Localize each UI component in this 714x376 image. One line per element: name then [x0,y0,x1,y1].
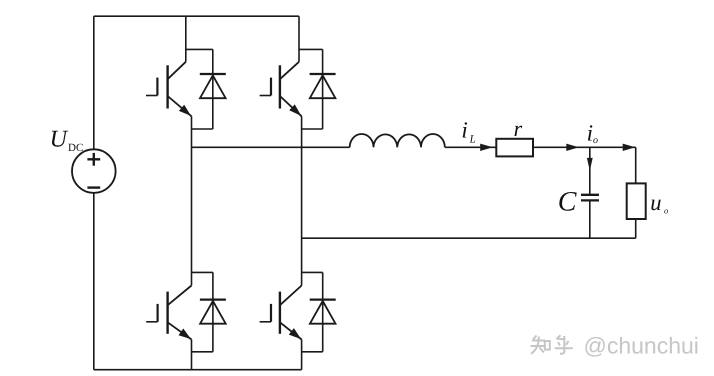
transistor Q2 (top collector wire) [298,16,300,62]
wire: emitter tee to D3 bottom [192,351,213,353]
arrow: current direction before node [566,144,579,151]
load resistor u_o box [627,183,646,219]
wire: right bridge leg (node B) [301,116,303,285]
wire: bottom output rail from node B to load [302,237,636,239]
svg-text:C: C [558,186,577,217]
svg-text:DC: DC [68,142,83,154]
DC source U_DC circle [72,149,116,193]
wire: bottom DC rail [94,369,302,371]
transistor Q4 body [260,286,302,340]
transistor Q2 body [260,62,302,117]
arrow: capacitor current down [587,158,593,171]
wire: left bridge leg (node A) [191,116,193,285]
DC source minus sign [87,186,100,188]
wire: phase rail from node A to inductor [192,146,350,148]
inductor L [350,134,445,147]
transistor Q1 body [146,62,192,117]
diode D4 antiparallel [310,272,336,351]
svg-text:L: L [469,133,476,145]
DC source plus sign [87,153,100,166]
wire: left vertical from top rail to source [93,16,95,149]
wire: inductor to resistor [445,146,497,148]
wire: Q2 emitter tee to D2 bottom [302,128,323,130]
transistor Q1 (top collector wire) [185,16,187,62]
wire: Q4 collector tee to D4 top [302,271,323,273]
resistor r [496,139,533,157]
wire: load branch lower [635,219,637,238]
svg-text:o: o [593,135,598,146]
diode D3 antiparallel [200,272,226,351]
wire: Q3 collector tee to D3 top [192,271,213,273]
wire: Q1 collector tee to D1 [186,48,213,50]
wire: Q3 emitter to bottom rail [191,340,193,370]
capacitor C plates [581,195,599,201]
wire: load branch upper [635,147,637,183]
diode D2 antiparallel [310,49,336,129]
transistor Q3 body [146,286,191,340]
wire: resistor to load corner [533,146,636,148]
svg-text:U: U [50,127,69,153]
wire: Q1 emitter tee to D1 bottom [192,128,213,130]
wire: left vertical from source to bottom rail [93,193,95,370]
wire: Q4 emitter to bottom rail [301,340,303,370]
arrow: current direction i_L [480,144,493,151]
wire: capacitor branch lower [589,200,591,238]
svg-text:@chunchui: @chunchui [584,333,699,359]
watermark 知乎 @chunchui [531,335,573,354]
svg-text:o: o [664,206,668,216]
svg-text:u: u [650,190,661,215]
arrow: current direction i_o into load [623,144,636,151]
wire: top DC rail [94,15,299,17]
svg-text:i: i [461,118,467,143]
wire: emitter tee to D4 bottom [302,351,323,353]
wire: Q2 collector tee to D2 [299,48,323,50]
wire: capacitor branch upper [589,147,591,194]
diode D1 antiparallel [200,49,226,129]
svg-text:r: r [514,116,523,141]
